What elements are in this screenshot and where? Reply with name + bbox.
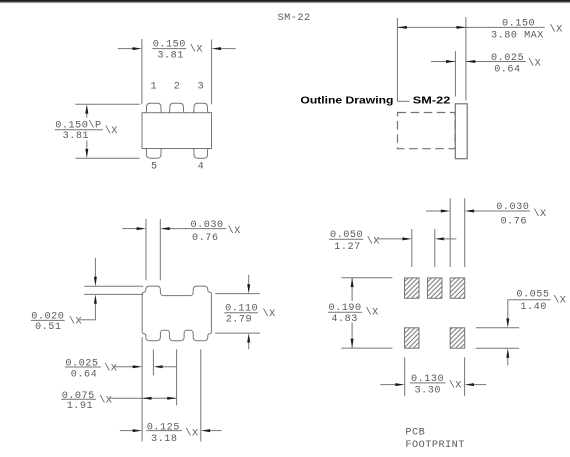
svg-text:SM-22: SM-22 [278, 13, 311, 24]
dim width ext line right [211, 40, 213, 105]
svg-text:0.64: 0.64 [71, 370, 97, 381]
dim row span ext top [341, 277, 392, 279]
svg-text:0.76: 0.76 [192, 233, 218, 244]
pad 2 [428, 278, 443, 298]
svg-text:\X: \X [367, 235, 380, 247]
ext body left edge [141, 337, 143, 442]
svg-text:0.025: 0.025 [491, 53, 524, 64]
svg-text:FOOTPRINT: FOOTPRINT [405, 440, 465, 451]
dim row span ext bottom [341, 347, 392, 349]
top view pin 3 lead [192, 103, 209, 113]
dim 0.125 line [120, 430, 134, 432]
svg-text:0.030: 0.030 [496, 202, 529, 213]
svg-text:0.150: 0.150 [502, 19, 535, 30]
ext pad1 centerline [411, 229, 413, 267]
svg-text:\X: \X [104, 363, 117, 375]
svg-text:0.030: 0.030 [191, 220, 224, 231]
svg-text:0.64: 0.64 [494, 65, 520, 76]
dim pad height arrows [507, 300, 509, 320]
dim bump line [122, 228, 138, 230]
svg-text:\X: \X [263, 308, 276, 320]
svg-text:\X: \X [228, 225, 241, 237]
svg-text:3.80 MAX: 3.80 MAX [491, 31, 544, 42]
top view pin 4 lead [192, 149, 209, 159]
dim width ext line left [141, 39, 143, 104]
dim 0.075 line [110, 397, 177, 399]
side view lead [455, 104, 467, 159]
dim pad height ext top [476, 327, 519, 329]
ext pad2 centerline [434, 229, 436, 267]
top border bar [0, 0, 570, 3]
dim pad height ext bottom [476, 347, 519, 349]
svg-text:Outline Drawing: Outline Drawing [300, 95, 393, 106]
dim height line top [86, 113, 88, 118]
dim bump ext right [159, 219, 161, 280]
side view body dashed [398, 113, 456, 149]
svg-text:\X: \X [366, 307, 379, 319]
svg-text:\X: \X [69, 316, 82, 328]
svg-text:\X: \X [190, 43, 203, 55]
svg-text:SM-22: SM-22 [413, 95, 451, 106]
svg-text:3: 3 [197, 81, 204, 92]
dim pad pitch line [378, 238, 404, 240]
dim width line right [220, 48, 236, 50]
svg-text:0.51: 0.51 [35, 322, 61, 333]
svg-text:3.81: 3.81 [157, 50, 183, 61]
svg-text:0.020: 0.020 [31, 312, 64, 323]
svg-text:4.83: 4.83 [331, 314, 357, 325]
dim pin5 offset line [114, 366, 134, 368]
dim width line left [118, 48, 134, 50]
side dim ext line mid [454, 51, 456, 96]
dim 0.025 lead line [431, 61, 455, 63]
leader dash to SM-22 [397, 100, 409, 102]
side dim ext line right [465, 17, 467, 101]
svg-text:0.130: 0.130 [411, 374, 444, 385]
dim bottom width ext right [464, 357, 466, 396]
dim height ext line top [75, 103, 139, 105]
svg-text:0.125: 0.125 [147, 422, 180, 433]
dim bottom width ext left [404, 357, 406, 396]
svg-text:1.91: 1.91 [67, 401, 93, 412]
pad 4 (bottom right) [450, 328, 465, 348]
dim protrusion arrows [94, 258, 96, 278]
svg-text:3.81: 3.81 [63, 131, 89, 142]
dim 0.150 MAX line [397, 26, 544, 28]
dim protrusion ext top [84, 285, 143, 287]
dim height ext line bottom [75, 157, 139, 159]
svg-text:0.055: 0.055 [516, 289, 549, 300]
dim body height ext bottom [215, 332, 260, 334]
svg-text:4: 4 [198, 162, 205, 173]
dim protrusion ext bottom [84, 293, 143, 295]
dim body height ext top [215, 293, 260, 295]
ext pad3 left edge [449, 198, 451, 267]
dim pad width line [426, 210, 442, 212]
svg-text:\X: \X [185, 427, 198, 439]
dim bottom width line [380, 384, 396, 386]
svg-text:1.40: 1.40 [520, 302, 546, 313]
dim body height arrows [248, 275, 250, 286]
ext pin4 centerline [200, 349, 202, 441]
top view pin 1 lead [145, 103, 163, 113]
dim row span arrows [351, 278, 353, 301]
ext pad3 right edge [464, 198, 466, 267]
top view body [142, 113, 212, 149]
top view pin 5 lead [145, 149, 163, 159]
svg-text:\X: \X [553, 294, 566, 306]
svg-text:2: 2 [174, 81, 181, 92]
dim height line bottom [86, 141, 88, 151]
svg-text:\X: \X [449, 379, 462, 391]
side dim ext line left [396, 18, 398, 101]
bottom view outline [142, 286, 211, 341]
svg-text:2.79: 2.79 [226, 314, 252, 325]
svg-text:0.76: 0.76 [501, 217, 527, 228]
svg-text:0.025: 0.025 [65, 359, 98, 370]
top view pin 2 lead [168, 103, 185, 113]
ext pin5 centerline [152, 349, 154, 375]
svg-text:\X: \X [105, 125, 118, 137]
svg-text:3.30: 3.30 [415, 386, 441, 397]
svg-text:1: 1 [150, 81, 157, 92]
svg-text:3.18: 3.18 [151, 434, 177, 445]
svg-text:\X: \X [550, 24, 563, 36]
dim bump ext left [145, 219, 147, 280]
svg-text:5: 5 [151, 162, 158, 173]
pad 1 [405, 278, 420, 298]
svg-text:\X: \X [99, 394, 112, 406]
ext mid pin centerline [176, 349, 178, 405]
svg-text:\X: \X [528, 57, 541, 69]
svg-text:\X: \X [533, 208, 546, 220]
pad 3 [450, 278, 465, 298]
pad 5 (bottom left) [405, 328, 420, 348]
svg-text:PCB: PCB [405, 428, 425, 439]
svg-text:1.27: 1.27 [334, 242, 360, 253]
